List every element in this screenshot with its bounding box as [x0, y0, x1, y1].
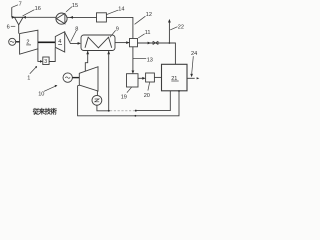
label 12: [146, 12, 152, 18]
junction dot condensate line: [135, 110, 137, 112]
svg-text:1: 1: [27, 76, 30, 82]
svg-text:11: 11: [145, 30, 151, 36]
wire: fan intake duct: [78, 86, 179, 116]
heat exchanger HX9 body: [81, 35, 115, 51]
junction dot at riser 22: [169, 42, 171, 44]
label 13: [147, 58, 153, 64]
leader for 11: [138, 34, 144, 38]
motor M10 circle: [63, 73, 72, 82]
svg-text:9: 9: [116, 26, 119, 32]
end arrow blob on outlet 24: [197, 77, 200, 79]
valve V on line to 21: [153, 41, 158, 44]
arrowhead right into funnel: [12, 16, 15, 19]
label 21 underlined: [171, 76, 177, 82]
label 14: [118, 6, 124, 12]
svg-text:16: 16: [35, 6, 41, 12]
up arrowhead into HX left: [86, 51, 89, 54]
turbine T4: [55, 32, 64, 52]
label 1: [27, 76, 30, 82]
wire: condensate line pump to boiler 21: [97, 105, 110, 111]
wire: HX right drain down to condensate line: [108, 51, 110, 111]
svg-text:22: 22: [178, 25, 184, 31]
leader for 12: [135, 16, 146, 24]
label 4 underlined: [58, 39, 61, 45]
svg-text:2: 2: [26, 39, 29, 45]
label 7: [19, 2, 22, 8]
leader for 20: [148, 82, 150, 90]
wire: fan outlet down to pump: [96, 91, 98, 95]
wire: dashed mid section of condensate line: [110, 110, 135, 112]
label 20: [144, 93, 150, 99]
leader for 8: [71, 31, 77, 42]
svg-text:6: 6: [7, 25, 10, 31]
label 9: [116, 26, 119, 32]
leader for 6: [11, 25, 16, 27]
wire: turbine 4 exhaust to heat exchanger: [65, 32, 79, 43]
junction dot duct to boiler: [178, 90, 180, 92]
svg-text:13: 13: [147, 58, 153, 64]
svg-text:3: 3: [44, 59, 47, 65]
leader for 15: [66, 7, 72, 12]
svg-text:7: 7: [19, 2, 22, 8]
wire: box 11 to valve to boiler 21: [138, 43, 176, 64]
wire: box 19 to box 20: [138, 77, 143, 79]
label 11: [145, 30, 151, 36]
generator G1 circle: [9, 38, 16, 45]
label 3: [44, 59, 47, 65]
shaft: turbine 2 to turbine 4: [38, 41, 55, 43]
condensate pump P circle: [92, 95, 102, 105]
wire: HX outlet to box 11: [115, 42, 130, 44]
label 8: [75, 27, 78, 33]
box 19: [127, 74, 139, 87]
shaft: generator to turbine 2: [16, 41, 20, 43]
svg-text:4: 4: [58, 39, 61, 45]
boiler furnace 21: [162, 64, 188, 91]
box 3: [43, 57, 49, 65]
turbine T2: [20, 30, 38, 54]
svg-text:15: 15: [72, 3, 78, 9]
label 16: [35, 6, 41, 12]
label 6: [7, 25, 10, 31]
shaft: motor to fan: [72, 77, 79, 79]
wire: box 20 to boiler 21: [154, 76, 161, 78]
label 15: [72, 3, 78, 9]
wire: turbine 4 drain to box 3: [49, 48, 55, 62]
wire: funnel drop into turbine 2: [18, 25, 20, 34]
pump glyph z: [95, 99, 100, 102]
label 10: [38, 91, 44, 97]
box 11: [130, 39, 138, 47]
wire 12: box 14 to box 11: [106, 17, 132, 38]
svg-text:従来技術: 従来技術: [32, 106, 58, 115]
heat exchanger coil M: [85, 37, 112, 48]
pump P15 circle: [56, 13, 67, 24]
leader arrow for 1: [30, 67, 36, 74]
svg-text:24: 24: [191, 51, 197, 57]
leader for 16: [23, 10, 35, 16]
arrowhead into box 3: [40, 60, 43, 63]
motor tilde: [65, 77, 70, 78]
wire: pump to box 14: [67, 16, 96, 18]
wire 13: box 11 down to box 19: [132, 47, 134, 71]
caption 従来技術: [32, 106, 58, 115]
box 20: [146, 73, 155, 82]
leader for 24 with down arrow: [192, 56, 194, 74]
label 19: [121, 95, 127, 101]
box 14: [97, 13, 107, 22]
arrowhead into heat exchanger: [78, 42, 81, 45]
svg-text:10: 10: [38, 91, 44, 97]
wire: riser to stack 22 with up arrow: [168, 22, 170, 44]
wire: HX left drain down to fan: [85, 51, 87, 72]
generator tilde: [10, 41, 14, 42]
arrowhead left toward pump: [70, 16, 74, 19]
wire: outlet 24 from boiler right: [187, 77, 195, 79]
label 24: [191, 51, 197, 57]
wire: main top pipe y=17.3: [12, 16, 56, 18]
arrowhead into box 20: [142, 77, 145, 80]
svg-text:20: 20: [144, 93, 150, 99]
svg-text:19: 19: [121, 95, 127, 101]
leader for 19: [127, 87, 132, 92]
inlet funnel / mixing valve 6: [15, 17, 24, 25]
wire: steam supply vertical line 7: [11, 7, 13, 17]
leader for 22: [170, 27, 177, 30]
leader for 9: [110, 30, 116, 37]
arrowhead left into funnel: [23, 16, 26, 19]
dot on duct: [135, 115, 137, 117]
leader arrow for 10: [44, 86, 56, 91]
wire: condensate line to boiler bottom: [136, 91, 171, 111]
svg-text:12: 12: [146, 12, 152, 18]
label 2 underlined: [26, 39, 29, 45]
svg-text:14: 14: [118, 6, 124, 12]
wire: turbine 2 drain to box 3: [38, 49, 40, 62]
leader for 7: [12, 5, 18, 8]
arrowhead down into box 19: [132, 71, 135, 74]
pump P15 impeller triangle: [56, 13, 65, 23]
flow arrowhead before valve: [148, 42, 151, 45]
arrowhead into box 11: [126, 41, 129, 44]
leader for 14: [106, 10, 118, 15]
up arrowhead into HX right: [107, 51, 110, 54]
label 22: [178, 25, 184, 31]
fan F: [79, 67, 98, 91]
junction dot HX drain: [108, 110, 110, 112]
leader for 13: [133, 57, 146, 59]
